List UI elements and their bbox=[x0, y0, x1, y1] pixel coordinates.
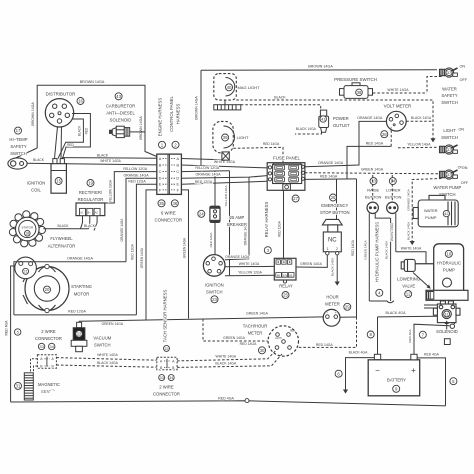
starter solenoid (21) bbox=[15, 257, 37, 279]
svg-text:FUSE PANEL: FUSE PANEL bbox=[273, 155, 301, 160]
svg-text:21: 21 bbox=[24, 270, 28, 274]
wire white 14ga dashed pressure switch bbox=[373, 92, 427, 94]
svg-text:E: E bbox=[177, 183, 180, 187]
svg-text:LIGHT: LIGHT bbox=[275, 338, 282, 340]
svg-text:BLACK 14GA: BLACK 14GA bbox=[215, 362, 236, 366]
svg-text:B: B bbox=[159, 163, 162, 167]
hydraulic pump harness wires (4) bbox=[368, 213, 370, 301]
lowering valve (12) bbox=[401, 259, 415, 271]
stator / flywheel alternator (18) bbox=[9, 211, 45, 247]
wire black 4ga battery negative bbox=[377, 317, 379, 354]
svg-text:−: − bbox=[326, 311, 328, 315]
wire red 14ga fuse panel to volt meter bbox=[347, 146, 391, 179]
svg-text:EMERGENCY: EMERGENCY bbox=[321, 203, 348, 208]
svg-text:PUMP: PUMP bbox=[443, 268, 455, 273]
svg-text:BLACK: BLACK bbox=[33, 158, 45, 162]
svg-text:10: 10 bbox=[446, 251, 451, 256]
svg-text:RECTIFIER/: RECTIFIER/ bbox=[79, 190, 103, 195]
wire white 14ga connector A to panel light bbox=[181, 159, 225, 160]
svg-text:SEN“˝˝”: SEN“˝˝” bbox=[41, 389, 56, 394]
svg-text:26: 26 bbox=[331, 195, 336, 200]
svg-text:CONNECTOR: CONNECTOR bbox=[154, 218, 182, 223]
svg-text:WHITE 14GA: WHITE 14GA bbox=[216, 355, 237, 359]
svg-text:D: D bbox=[176, 177, 179, 181]
svg-text:METER: METER bbox=[248, 331, 263, 336]
vacuum switch (22) bbox=[71, 322, 87, 351]
water pump switch (37) bbox=[440, 170, 458, 179]
svg-text:RED 12GA: RED 12GA bbox=[128, 180, 146, 184]
2 wire connector center (33)(34) bbox=[157, 357, 177, 369]
svg-text:RED 4GA: RED 4GA bbox=[218, 397, 234, 401]
svg-text:ORANGE 14GA: ORANGE 14GA bbox=[120, 218, 124, 242]
svg-text:TACH SENSOR HARNESS: TACH SENSOR HARNESS bbox=[162, 290, 167, 343]
pump solenoid (11) bbox=[433, 301, 460, 323]
svg-text:SOLENOID: SOLENOID bbox=[436, 329, 458, 334]
svg-text:HYDRAULIC: HYDRAULIC bbox=[437, 261, 461, 266]
svg-text:2: 2 bbox=[336, 247, 338, 251]
svg-text:HARNESS: HARNESS bbox=[175, 103, 180, 124]
wire red 12ga breaker to ignition switch bbox=[214, 222, 216, 254]
lower button symbol bbox=[387, 202, 398, 213]
wire black 14ga dashed volt meter to light switch bbox=[406, 120, 433, 122]
svg-text:REGULATOR: REGULATOR bbox=[78, 197, 104, 202]
magnetic sensor (31) bbox=[24, 373, 33, 400]
svg-text:OFF: OFF bbox=[460, 78, 468, 82]
svg-text:2 WIRE: 2 WIRE bbox=[159, 385, 174, 390]
svg-text:GREEN 14GA: GREEN 14GA bbox=[364, 240, 368, 259]
wire brown 14ga engine loop (distributor box outline) bbox=[37, 85, 157, 156]
emergency stop button (26) bbox=[330, 194, 337, 201]
wire black distributor loop to coil bbox=[58, 119, 83, 159]
svg-text:HYDRAULIC PUMP HARNESS: HYDRAULIC PUMP HARNESS bbox=[375, 222, 380, 282]
panel light (39) bbox=[213, 121, 233, 152]
svg-text:RED 14GA: RED 14GA bbox=[240, 342, 258, 346]
svg-text:35: 35 bbox=[159, 201, 164, 206]
svg-text:−: − bbox=[375, 366, 380, 375]
svg-text:ORANGE 14GA: ORANGE 14GA bbox=[67, 257, 93, 261]
svg-text:BROWN 14GA: BROWN 14GA bbox=[80, 80, 105, 84]
svg-text:39: 39 bbox=[223, 135, 228, 140]
wire red 12ga connector E to fuse panel bbox=[181, 181, 267, 184]
svg-text:C: C bbox=[159, 170, 162, 174]
rectifier pins bbox=[81, 216, 83, 229]
svg-text:28: 28 bbox=[382, 132, 387, 137]
wires distributor to ignition coil bbox=[55, 127, 58, 159]
svg-text:VOLT METER: VOLT METER bbox=[384, 104, 412, 109]
svg-text:ANTI—DIESEL: ANTI—DIESEL bbox=[106, 111, 135, 116]
svg-text:SWITCH: SWITCH bbox=[94, 343, 111, 348]
svg-text:LOWERING: LOWERING bbox=[397, 276, 420, 281]
svg-text:29: 29 bbox=[345, 304, 350, 309]
svg-text:BLACK 4GA: BLACK 4GA bbox=[349, 351, 369, 355]
svg-text:ORANGE 14GA: ORANGE 14GA bbox=[225, 255, 250, 259]
wire green 14ga connector F right branch down bbox=[181, 190, 188, 319]
wire black 4ga battery to ground bbox=[346, 358, 375, 390]
wire black stator to rectifier bbox=[43, 228, 88, 230]
hi-temp safety switch (17) bbox=[15, 127, 22, 134]
relay (25) bbox=[274, 258, 296, 280]
distributor (16) bbox=[45, 99, 73, 127]
svg-text:BLACK 14GA: BLACK 14GA bbox=[296, 127, 317, 131]
battery positive terminal bbox=[411, 354, 417, 360]
svg-text:YELLOW 12GA: YELLOW 12GA bbox=[238, 271, 262, 275]
lower button (14) bbox=[389, 178, 396, 185]
svg-text:HI–TEMP: HI–TEMP bbox=[9, 137, 27, 142]
svg-text:HOUR: HOUR bbox=[326, 295, 338, 300]
mag light (40) bbox=[214, 74, 237, 101]
svg-text:WHITE 14GA: WHITE 14GA bbox=[239, 262, 260, 266]
svg-text:WHITE 14GA: WHITE 14GA bbox=[387, 88, 409, 92]
svg-text:IGNITION: IGNITION bbox=[205, 282, 224, 287]
svg-text:TACH/HOUR: TACH/HOUR bbox=[243, 323, 268, 328]
svg-text:24: 24 bbox=[199, 211, 204, 216]
svg-text:1: 1 bbox=[327, 247, 329, 251]
svg-text:87a: 87a bbox=[283, 273, 288, 277]
svg-text:BLACK 14GA: BLACK 14GA bbox=[97, 361, 118, 365]
svg-text:RED 12GA: RED 12GA bbox=[130, 243, 134, 260]
svg-text:ORANGE 14GA: ORANGE 14GA bbox=[406, 189, 410, 211]
svg-text:RED 14GA: RED 14GA bbox=[366, 142, 384, 146]
svg-text:ORANGE 14GA: ORANGE 14GA bbox=[318, 161, 344, 165]
wire green 14ga dashed fuse panel to water pump switch bbox=[305, 173, 442, 174]
svg-text:E: E bbox=[159, 183, 162, 187]
wire yellow 12ga connector C to rectifier bbox=[105, 172, 157, 203]
svg-text:38: 38 bbox=[357, 90, 362, 95]
svg-text:DISTRIBUTOR: DISTRIBUTOR bbox=[46, 92, 76, 97]
ignition coil (15) bbox=[51, 164, 66, 194]
svg-text:42: 42 bbox=[444, 211, 449, 216]
svg-text:IGNITION: IGNITION bbox=[27, 181, 46, 186]
wire orange 14ga starting motor box top bbox=[14, 262, 126, 315]
wire green 14ga relay to emergency stop bbox=[296, 255, 327, 268]
svg-text:ALTERNATOR: ALTERNATOR bbox=[48, 244, 75, 249]
svg-text:RED 4GA: RED 4GA bbox=[424, 352, 440, 356]
svg-text:BLACK: BLACK bbox=[78, 125, 82, 136]
wire red 12ga starting motor box bottom bbox=[14, 314, 136, 316]
wire yellow 14ga dashed volt meter to light switch bbox=[398, 146, 438, 149]
svg-text:RED 12GA: RED 12GA bbox=[278, 220, 282, 237]
svg-text:+: + bbox=[335, 311, 337, 315]
svg-text:12: 12 bbox=[406, 292, 411, 297]
battery (9) bbox=[368, 360, 420, 396]
wire dashed mag light plug to power outlet bbox=[241, 105, 321, 110]
svg-text:33: 33 bbox=[39, 344, 44, 349]
svg-text:FLYWHEEL: FLYWHEEL bbox=[50, 236, 73, 241]
wires into pump solenoid bbox=[424, 304, 437, 306]
svg-text:BROWN 14GA: BROWN 14GA bbox=[139, 116, 143, 140]
svg-text:LOWER: LOWER bbox=[386, 188, 401, 193]
wire black 14ga dashed connector to tach meter bbox=[177, 354, 282, 367]
wire red 14ga to hour meter bbox=[356, 179, 358, 317]
svg-text:D: D bbox=[159, 177, 162, 181]
wire red 4ga bottom run bbox=[11, 401, 446, 406]
svg-text:25 AMP: 25 AMP bbox=[230, 215, 245, 220]
wire carb solenoid to engine harness bbox=[130, 131, 145, 133]
wire white 14ga to lowering valve bbox=[396, 252, 426, 264]
svg-text:RELAY: RELAY bbox=[279, 284, 293, 289]
svg-text:RED 14GA: RED 14GA bbox=[351, 239, 355, 256]
svg-text:BLACK 14GA: BLACK 14GA bbox=[331, 258, 335, 276]
svg-text:YELLOW 14GA: YELLOW 14GA bbox=[407, 143, 431, 147]
svg-text:ORANGE 14GA: ORANGE 14GA bbox=[123, 173, 149, 177]
svg-text:GREEN 14GA: GREEN 14GA bbox=[223, 336, 245, 340]
svg-text:MOTOR: MOTOR bbox=[74, 291, 90, 296]
svg-text:YELLOW 12GA: YELLOW 12GA bbox=[123, 167, 148, 171]
panel light plug bbox=[222, 152, 229, 160]
svg-text:BLACK 4GA: BLACK 4GA bbox=[386, 311, 407, 315]
svg-text:16: 16 bbox=[78, 99, 83, 104]
svg-text:RED 14GA: RED 14GA bbox=[320, 174, 338, 178]
svg-text:YELLOW 12GA: YELLOW 12GA bbox=[195, 166, 220, 170]
svg-text:ON: ON bbox=[459, 128, 465, 132]
svg-text:PRESSURE SWITCH: PRESSURE SWITCH bbox=[334, 77, 377, 82]
svg-text:METER: METER bbox=[325, 302, 340, 307]
svg-text:RELAY HARNESS: RELAY HARNESS bbox=[264, 202, 269, 238]
wire white 14ga connector B to fuse panel bbox=[181, 165, 267, 168]
svg-text:36: 36 bbox=[172, 201, 177, 206]
wire green 14ga main run to hour meter bbox=[79, 317, 323, 321]
svg-text:PUMP: PUMP bbox=[425, 215, 437, 220]
svg-text:CARBURETOR: CARBURETOR bbox=[106, 104, 135, 109]
svg-text:COIL: COIL bbox=[31, 188, 41, 193]
svg-text:RED 12GA: RED 12GA bbox=[68, 310, 86, 314]
svg-text:15: 15 bbox=[56, 179, 61, 184]
wire red 12ga connector E to starting motor bbox=[136, 184, 156, 315]
svg-text:VACUUM: VACUUM bbox=[93, 336, 111, 341]
svg-text:RED 14GA: RED 14GA bbox=[263, 142, 280, 146]
wire black 4ga to solenoid bbox=[378, 315, 438, 318]
wire red distributor loop to coil bbox=[63, 114, 91, 159]
svg-text:ON: ON bbox=[460, 64, 466, 68]
svg-text:SWITCH: SWITCH bbox=[441, 135, 458, 140]
svg-text:WATER: WATER bbox=[424, 208, 438, 213]
6 wire connector (35)(36) bbox=[157, 154, 182, 194]
battery negative terminal bbox=[374, 354, 380, 360]
hydraulic pump (10) bbox=[434, 244, 464, 299]
svg-text:43: 43 bbox=[116, 94, 121, 99]
svg-text:19: 19 bbox=[88, 181, 93, 186]
wire black hi-temp to ignition coil bbox=[27, 162, 51, 164]
svg-text:14: 14 bbox=[390, 179, 395, 184]
svg-text:BLACK: BLACK bbox=[97, 154, 109, 158]
raise button (13) bbox=[370, 178, 377, 185]
wire black 14ga dashed sensor harness bbox=[56, 365, 156, 367]
wire red 4ga battery positive to solenoid (7) bbox=[414, 324, 450, 354]
rectifier/regulator (19) bbox=[87, 180, 94, 187]
wire red 14ga dashed light to fuse panel bbox=[233, 147, 283, 162]
svg-text:GREEN 14GA: GREEN 14GA bbox=[361, 168, 384, 172]
wire red 14ga fuse panel right bbox=[305, 178, 357, 181]
wire red 12ga fuse panel to relay bbox=[283, 190, 285, 258]
svg-text:ORANGE 14GA: ORANGE 14GA bbox=[195, 173, 221, 177]
svg-text:SAFETY: SAFETY bbox=[10, 144, 26, 149]
svg-text:RED 12GA: RED 12GA bbox=[209, 233, 213, 248]
light switch (37) bbox=[440, 145, 458, 154]
svg-text:ON: ON bbox=[462, 166, 468, 170]
svg-text:SWITCH: SWITCH bbox=[206, 289, 223, 294]
svg-text:C: C bbox=[176, 170, 179, 174]
raise button symbol bbox=[367, 202, 378, 213]
svg-text:25: 25 bbox=[283, 293, 288, 298]
svg-text:23: 23 bbox=[212, 297, 217, 302]
svg-text:BREAKER: BREAKER bbox=[227, 222, 247, 227]
svg-text:MAG LIGHT: MAG LIGHT bbox=[237, 85, 260, 90]
mag light plug bbox=[224, 100, 226, 105]
hydraulic pump base bbox=[426, 290, 468, 300]
svg-text:37: 37 bbox=[447, 172, 451, 177]
svg-text:AC: AC bbox=[95, 212, 99, 215]
wire dashed water safety to pressure switch bbox=[427, 77, 442, 94]
svg-text:STOP BUTTON: STOP BUTTON bbox=[320, 210, 350, 215]
wire brown 14ga panel top run bbox=[201, 69, 437, 72]
wire black coil to connector A bbox=[62, 157, 157, 160]
svg-text:A: A bbox=[159, 157, 162, 161]
svg-text:GREEN 14GA: GREEN 14GA bbox=[140, 247, 144, 268]
svg-text:11: 11 bbox=[445, 312, 449, 316]
wire white 14ga ignition switch to relay bbox=[225, 265, 274, 267]
svg-text:CONNECTOR: CONNECTOR bbox=[35, 336, 62, 341]
svg-text:BROWN 14GA: BROWN 14GA bbox=[308, 65, 333, 69]
power outlet (41) bbox=[319, 110, 329, 132]
wires dashed to raise/lower buttons bbox=[372, 175, 374, 202]
svg-text:CONNECTOR: CONNECTOR bbox=[153, 391, 180, 396]
wire vacuum switch to green run bbox=[78, 321, 80, 322]
svg-text:30: 30 bbox=[260, 348, 265, 353]
svg-text:22: 22 bbox=[77, 331, 82, 336]
svg-text:OFF: OFF bbox=[461, 181, 469, 185]
wire red 14ga branch to emergency stop bbox=[336, 179, 338, 219]
svg-text:GREEN 14GA: GREEN 14GA bbox=[183, 237, 187, 258]
water safety switch (37) bbox=[440, 68, 458, 77]
svg-text:ENGINE HARNESS: ENGINE HARNESS bbox=[157, 98, 162, 137]
svg-text:BLACK: BLACK bbox=[84, 224, 96, 228]
wire white 14ga coil to connector B bbox=[66, 164, 156, 165]
wire orange 14ga branch down to ignition switch bbox=[225, 177, 249, 260]
svg-text:BLACK 14GA: BLACK 14GA bbox=[406, 222, 410, 240]
svg-text:BLACK: BLACK bbox=[274, 95, 286, 99]
svg-text:WHITE 14GA: WHITE 14GA bbox=[401, 247, 422, 251]
svg-text:RAISE: RAISE bbox=[367, 188, 379, 193]
carburetor anti-diesel solenoid (43) bbox=[115, 93, 122, 100]
svg-text:27: 27 bbox=[293, 196, 298, 201]
arrow lowering valve to solenoid bbox=[413, 273, 430, 288]
svg-text:CONTROL PANEL: CONTROL PANEL bbox=[169, 95, 174, 131]
svg-text:31: 31 bbox=[16, 383, 21, 388]
svg-text:20: 20 bbox=[45, 287, 50, 292]
wire white 14ga dashed connector to tach meter bbox=[177, 349, 277, 361]
svg-text:YELLOW 12GA: YELLOW 12GA bbox=[108, 179, 112, 202]
svg-text:B: B bbox=[177, 163, 180, 167]
svg-text:POWER: POWER bbox=[333, 116, 349, 121]
wire yellow 12ga connector C to 25 amp breaker and relay bbox=[181, 170, 229, 173]
svg-text:17: 17 bbox=[16, 128, 21, 133]
svg-text:NC: NC bbox=[328, 238, 337, 244]
wire lowering valve to pump bbox=[415, 263, 434, 265]
svg-text:32: 32 bbox=[164, 347, 168, 351]
wire red 4ga left main (5) bbox=[11, 266, 15, 402]
svg-text:SWITCH: SWITCH bbox=[441, 100, 458, 105]
svg-text:RED: RED bbox=[85, 127, 89, 134]
svg-text:GREEN 14GA: GREEN 14GA bbox=[300, 262, 322, 266]
svg-text:LIGHT: LIGHT bbox=[237, 135, 249, 140]
wire red 4ga battery positive to bottom run (5) bbox=[417, 358, 445, 406]
wire orange/black dashed water pump switch down bbox=[412, 179, 441, 242]
svg-text:RED: RED bbox=[290, 331, 295, 333]
svg-text:18: 18 bbox=[25, 232, 29, 236]
svg-text:A: A bbox=[177, 157, 180, 161]
wire black dashed mag light to light switch bbox=[236, 100, 433, 140]
svg-text:37: 37 bbox=[447, 70, 451, 75]
ignition switch (23) bbox=[203, 255, 225, 277]
svg-text:ORANGE 14GA: ORANGE 14GA bbox=[357, 116, 383, 120]
wire black 14ga dashed from power outlet bbox=[295, 132, 322, 134]
svg-text:LIGHT: LIGHT bbox=[443, 128, 456, 133]
svg-text:6 WIRE: 6 WIRE bbox=[161, 211, 176, 216]
wire green 14ga dashed to tach meter bbox=[203, 319, 268, 341]
svg-text:RED 12GA: RED 12GA bbox=[195, 180, 213, 184]
svg-text:RED: RED bbox=[67, 143, 74, 147]
svg-text:MAGNETIC: MAGNETIC bbox=[38, 382, 60, 387]
svg-text:STATOR: STATOR bbox=[21, 226, 34, 230]
svg-text:2 WIRE: 2 WIRE bbox=[41, 329, 56, 334]
starting motor (20) bbox=[25, 267, 69, 311]
svg-text:SOLENOID: SOLENOID bbox=[110, 118, 132, 123]
water pump (42) bbox=[413, 195, 458, 226]
svg-text:BROWN 14GA: BROWN 14GA bbox=[31, 102, 35, 126]
wire red 14ga dashed hour meter to tach meter bbox=[299, 317, 357, 347]
svg-text:RED 14GA: RED 14GA bbox=[316, 343, 334, 347]
wires dashed 2 wire connector to magnetic sensor bbox=[31, 359, 38, 373]
svg-text:WHITE 14GA: WHITE 14GA bbox=[390, 223, 394, 241]
svg-text:34: 34 bbox=[49, 344, 54, 349]
svg-text:WHITE 14GA: WHITE 14GA bbox=[97, 353, 118, 357]
svg-text:GREEN 14GA: GREEN 14GA bbox=[101, 322, 123, 326]
svg-text:AC: AC bbox=[80, 212, 84, 215]
svg-text:STARTING: STARTING bbox=[71, 284, 92, 289]
wire orange 14ga connector D to starting motor bbox=[126, 178, 157, 262]
svg-text:WATER: WATER bbox=[442, 86, 457, 91]
25 amp breaker (24) bbox=[198, 210, 205, 217]
svg-text:BUTTON: BUTTON bbox=[365, 194, 381, 199]
svg-text:BATTERY: BATTERY bbox=[387, 377, 406, 382]
svg-text:VALVE: VALVE bbox=[402, 283, 415, 288]
wire black 14ga emergency stop to ground bbox=[336, 255, 338, 282]
wire orange 14ga connector D to fuse panel with branch to ignition switch bbox=[181, 176, 267, 179]
svg-text:40: 40 bbox=[227, 85, 232, 90]
svg-text:WHITE 14GA: WHITE 14GA bbox=[100, 159, 121, 163]
wire brown to hi-temp safety switch bbox=[15, 148, 38, 159]
wire yellow 12ga ignition switch to relay bbox=[225, 274, 274, 276]
svg-text:WHITE 14GA: WHITE 14GA bbox=[214, 160, 236, 164]
svg-text:BLACK: BLACK bbox=[57, 224, 69, 228]
svg-text:BUTTON: BUTTON bbox=[385, 194, 401, 199]
wire orange 14ga fuse panel to volt meter bbox=[305, 121, 387, 166]
svg-text:YELLOW 12GA: YELLOW 12GA bbox=[224, 185, 228, 206]
svg-text:+: + bbox=[411, 366, 416, 375]
wire brown 14ga panel vertical bbox=[200, 70, 202, 165]
svg-text:BLACK 14GA: BLACK 14GA bbox=[411, 116, 432, 120]
wire white 14ga dashed sensor harness bbox=[56, 358, 156, 361]
svg-text:41: 41 bbox=[321, 116, 326, 121]
svg-text:34: 34 bbox=[169, 376, 173, 380]
svg-text:WATER PUMP: WATER PUMP bbox=[433, 185, 461, 190]
svg-text:33: 33 bbox=[160, 376, 164, 380]
svg-text:BLACK 14GA: BLACK 14GA bbox=[384, 241, 388, 259]
svg-text:BROWN 14GA: BROWN 14GA bbox=[195, 96, 199, 120]
wire green 14ga connector F down bbox=[146, 190, 157, 320]
svg-text:RED 4GA: RED 4GA bbox=[408, 329, 412, 342]
svg-text:37: 37 bbox=[447, 147, 451, 152]
